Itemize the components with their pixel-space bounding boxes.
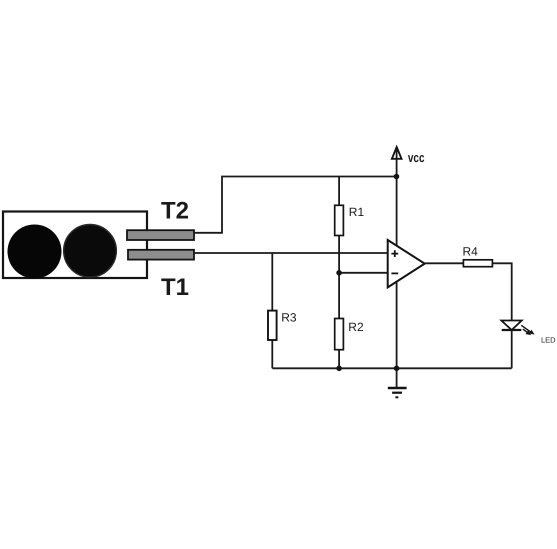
wire vcc vertical through to ground rail bbox=[396, 149, 398, 368]
ground bbox=[396, 368, 398, 388]
wire R3 branch bbox=[271, 253, 273, 368]
wire T2 to top rail bbox=[194, 177, 397, 233]
LED arrow 1 bbox=[521, 325, 530, 332]
resistor R1 bbox=[335, 205, 344, 235]
op-amp plus pin mark bbox=[391, 250, 398, 257]
wire T1 to op-amp + input bbox=[194, 252, 388, 254]
svg-text:vcc: vcc bbox=[408, 150, 425, 165]
LED D1 bbox=[501, 321, 521, 331]
tilt sensor box bbox=[3, 212, 147, 279]
svg-text:R2: R2 bbox=[348, 320, 364, 334]
LED arrow 2 bbox=[523, 329, 527, 332]
junction dot ground node bbox=[394, 366, 400, 372]
resistor R4 bbox=[463, 260, 492, 267]
junction dot top rail / vcc bbox=[394, 174, 400, 180]
svg-text:R3: R3 bbox=[281, 311, 297, 325]
svg-text:T1: T1 bbox=[161, 274, 189, 301]
resistor R2 bbox=[335, 319, 344, 350]
electrode bar T2 bbox=[127, 230, 194, 240]
wire bottom rail bbox=[272, 367, 511, 369]
resistor R3 bbox=[268, 311, 277, 340]
svg-text:T2: T2 bbox=[161, 197, 189, 224]
wire inverting input bbox=[339, 272, 387, 274]
ball 1 bbox=[8, 225, 62, 279]
LED cathode bar bbox=[502, 329, 522, 331]
ball 2 bbox=[64, 225, 117, 278]
wire R4 to LED bbox=[492, 263, 511, 320]
vcc symbol bbox=[392, 147, 402, 159]
wire op-amp output bbox=[425, 262, 464, 264]
wire LED to bottom rail bbox=[511, 330, 513, 368]
svg-text:R4: R4 bbox=[463, 245, 479, 259]
electrode bar T1 bbox=[128, 250, 194, 260]
junction dot R2 bottom bbox=[336, 366, 342, 372]
op-amp U1 bbox=[388, 240, 425, 287]
junction dot inverting node bbox=[336, 270, 342, 276]
svg-text:R1: R1 bbox=[349, 205, 365, 219]
svg-text:LED: LED bbox=[541, 335, 556, 344]
op-amp minus pin mark bbox=[391, 272, 398, 274]
wire R1-R2 vertical branch bbox=[338, 177, 340, 369]
